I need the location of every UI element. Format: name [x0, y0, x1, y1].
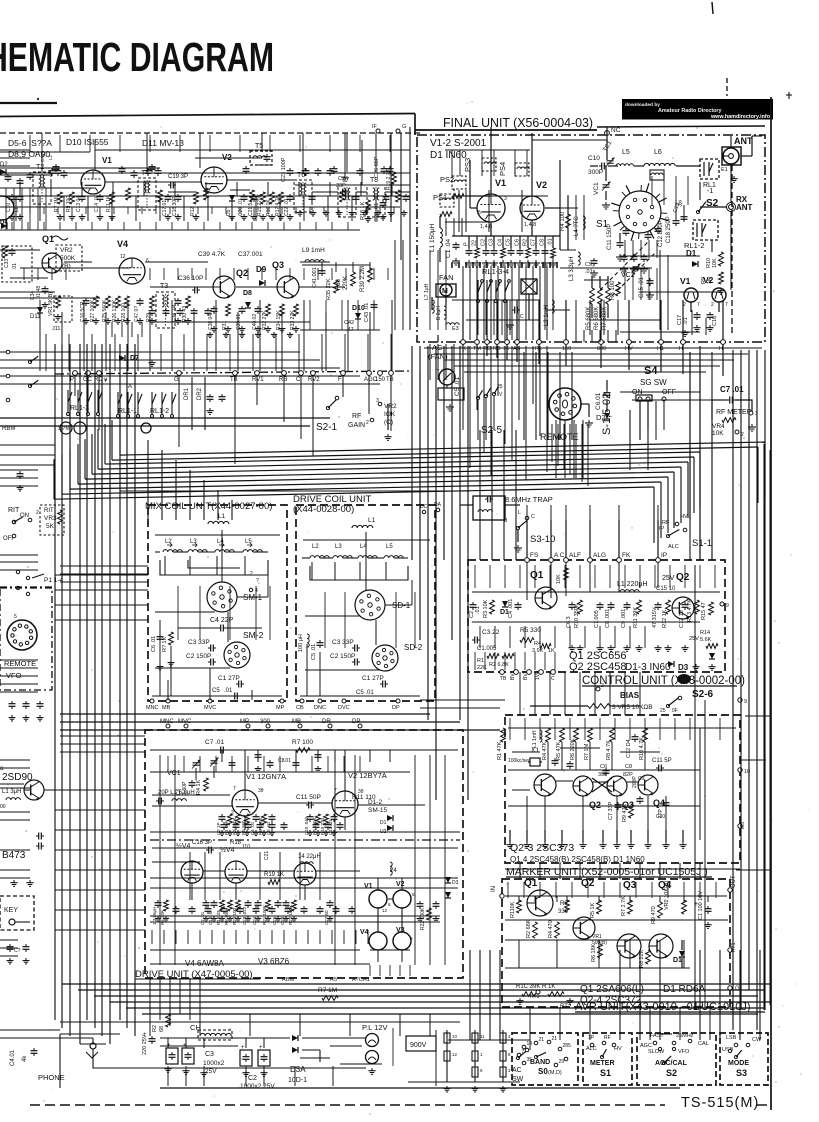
capacitor — [647, 278, 654, 286]
svg-text:ANT: ANT — [734, 136, 753, 146]
resistor — [334, 280, 339, 293]
resistor — [578, 600, 583, 614]
capacitor — [189, 906, 196, 914]
ground — [579, 842, 586, 848]
ground — [566, 998, 573, 1004]
capacitor — [283, 900, 290, 908]
resistor — [487, 654, 499, 659]
svg-text:S4: S4 — [644, 365, 658, 377]
svg-text:C8 .001: C8 .001 — [605, 609, 611, 628]
svg-text:CB: CB — [296, 705, 304, 711]
svg-text:C11 5P: C11 5P — [652, 758, 672, 764]
svg-text:C16 5CP: C16 5CP — [80, 301, 86, 322]
wire — [730, 165, 732, 172]
ground — [207, 332, 213, 338]
mix unit extra verticals — [177, 586, 179, 640]
svg-text:IP: IP — [659, 526, 665, 532]
svg-text:R6 680K: R6 680K — [594, 307, 600, 330]
capacitor — [131, 170, 138, 178]
mix SM1 to SM2 — [227, 612, 229, 642]
inductor — [620, 590, 639, 592]
wire bus vertical — [682, 344, 684, 374]
control inner verticals — [479, 626, 481, 648]
meter M1 — [439, 369, 455, 385]
svg-text:C10: C10 — [588, 155, 600, 162]
inductor — [352, 525, 373, 528]
wire — [544, 236, 546, 248]
capacitor — [42, 286, 49, 294]
capacitor — [617, 240, 624, 248]
ground — [182, 1068, 189, 1074]
transistor Q4 2SC372 — [649, 934, 673, 958]
svg-text:35: 35 — [527, 1057, 533, 1063]
avr mid bus — [505, 939, 650, 941]
bottom outline lines — [160, 1087, 680, 1089]
svg-text:BIAS: BIAS — [620, 691, 640, 700]
inductor — [163, 550, 182, 552]
inductor — [208, 521, 229, 524]
coil PS1 — [440, 194, 454, 207]
wires left transistor — [0, 783, 24, 785]
left vertical bundle — [54, 344, 56, 1020]
rotary switch — [355, 590, 385, 620]
ground — [365, 216, 372, 222]
ground — [662, 842, 669, 848]
final right verticals long — [691, 310, 693, 335]
svg-text:R5 47K: R5 47K — [556, 741, 562, 760]
resistor — [324, 814, 329, 825]
capacitor — [483, 248, 490, 256]
transistor Q1 — [534, 774, 556, 796]
terminal BV1 — [514, 670, 519, 675]
svg-text:DVC: DVC — [338, 705, 350, 711]
diode — [709, 653, 715, 659]
svg-text:Q2-3 2SC373: Q2-3 2SC373 — [510, 842, 574, 854]
tube 1/2 V4 — [225, 861, 247, 883]
capacitor — [185, 1052, 192, 1060]
svg-text:R39 2.2M: R39 2.2M — [360, 266, 366, 292]
resistor — [548, 992, 564, 997]
ground — [384, 434, 391, 440]
diode — [387, 815, 393, 821]
svg-text:S1-1: S1-1 — [692, 538, 712, 549]
control bottom comb — [474, 652, 476, 670]
svg-text:Q3: Q3 — [623, 880, 637, 891]
wire — [631, 232, 634, 241]
control unit board outline — [468, 560, 725, 672]
wire bus vertical — [462, 344, 464, 352]
ground — [251, 214, 258, 220]
wire bus bottom — [62, 983, 770, 985]
t cluster bus y185 — [295, 184, 410, 186]
svg-text:C15 .01: C15 .01 — [639, 276, 645, 298]
ground — [620, 266, 628, 273]
svg-text:R7 1M: R7 1M — [584, 743, 590, 760]
ground — [255, 332, 261, 338]
ground — [602, 202, 610, 209]
wire — [682, 830, 684, 842]
svg-text:D1 IN60: D1 IN60 — [430, 150, 467, 161]
mix coil drops — [164, 556, 166, 575]
svg-text:R5: R5 — [330, 977, 337, 983]
wire — [561, 830, 563, 842]
capacitor — [285, 906, 292, 914]
capacitor — [137, 298, 144, 306]
resistor — [526, 248, 531, 258]
svg-text:R13 4.7K: R13 4.7K — [687, 599, 693, 622]
terminal TM — [475, 340, 480, 345]
capacitor — [353, 194, 360, 202]
svg-text:2: 2 — [250, 571, 253, 577]
D7 row verticals — [111, 322, 113, 337]
wire bus bottom — [94, 995, 758, 997]
svg-text:7: 7 — [233, 786, 236, 792]
capacitor — [508, 248, 515, 256]
ground — [388, 210, 395, 216]
ground — [261, 830, 267, 836]
capacitor — [218, 747, 226, 754]
tube V1 — [81, 170, 105, 194]
capacitor — [241, 194, 248, 202]
svg-text:D2: D2 — [0, 162, 8, 168]
svg-text:R110K: R110K — [510, 901, 516, 918]
bus vertical stubs left — [119, 415, 121, 455]
svg-text:LSB: LSB — [726, 1035, 737, 1041]
svg-text:V1: V1 — [102, 156, 112, 165]
VR1 dashed box — [54, 296, 72, 322]
ground — [57, 214, 64, 220]
capacitor — [168, 182, 176, 189]
capacitor — [79, 194, 86, 202]
svg-text:R5 330: R5 330 — [520, 627, 541, 634]
if strip vertical drops — [15, 196, 17, 221]
capacitor — [512, 307, 520, 314]
resistor — [719, 272, 724, 284]
svg-text:10K: 10K — [556, 574, 562, 584]
if strip horizontal bus 1 — [0, 167, 160, 169]
svg-text:C25: C25 — [272, 916, 277, 925]
resistor — [574, 728, 579, 742]
mid bus y298 — [0, 297, 100, 299]
verticals below final unit left part — [429, 344, 431, 380]
resistor — [270, 192, 275, 204]
resistor — [565, 900, 570, 912]
ground — [271, 332, 277, 338]
svg-text:C2: C2 — [248, 1075, 257, 1082]
svg-text:C3.22: C3.22 — [482, 629, 500, 636]
L9 cluster wires — [302, 264, 370, 266]
capacitor — [36, 833, 44, 840]
drive lower bus y916 — [150, 915, 440, 917]
svg-text:25V: 25V — [205, 1068, 217, 1075]
svg-text:C15 10: C15 10 — [656, 586, 676, 592]
svg-text:29: 29 — [559, 1059, 565, 1065]
svg-text:MNC: MNC — [146, 705, 159, 711]
resistor — [566, 214, 571, 228]
wire — [565, 520, 567, 558]
ground — [613, 842, 620, 848]
ground — [331, 830, 337, 836]
svg-text:OUT: OUT — [731, 875, 737, 888]
svg-text:2: 2 — [711, 302, 714, 308]
terminal RC — [485, 340, 490, 345]
t cluster vertical — [361, 140, 363, 185]
svg-text:CAL: CAL — [698, 1041, 709, 1047]
terminal FS — [525, 558, 530, 563]
inductor — [442, 198, 454, 200]
final top wires — [490, 133, 492, 140]
svg-text:VC1: VC1 — [167, 770, 181, 777]
electrolytic C2 pair — [240, 1050, 252, 1066]
wire — [453, 189, 455, 191]
ground — [541, 842, 548, 848]
ground — [549, 260, 557, 267]
capacitor — [319, 268, 326, 276]
svg-text:IN: IN — [491, 886, 497, 892]
drive unit interior verticals 3 — [167, 756, 169, 772]
wire — [682, 300, 684, 340]
svg-text:L4 ?TC: L4 ?TC — [574, 216, 580, 236]
wire — [535, 236, 537, 248]
wire stubs exiting left edge — [0, 351, 38, 353]
switch — [326, 400, 336, 410]
resistor — [719, 252, 724, 266]
svg-text:.01: .01 — [585, 269, 593, 275]
wire Q3 L9 — [299, 286, 345, 288]
inductor — [172, 799, 186, 801]
terminal RL — [537, 340, 542, 345]
capacitor — [707, 312, 714, 320]
svg-text:C41.001: C41.001 — [312, 267, 318, 288]
capacitor — [552, 758, 559, 766]
control bus 2 — [472, 621, 700, 623]
svg-text:Q3: Q3 — [272, 260, 284, 270]
wire — [618, 520, 620, 558]
ground — [516, 260, 524, 267]
capacitor — [232, 693, 240, 700]
wire — [517, 530, 519, 542]
svg-text:C13 04: C13 04 — [76, 196, 82, 212]
resistor — [245, 814, 250, 825]
ground — [607, 645, 614, 651]
resistor — [606, 288, 611, 304]
capacitor — [349, 906, 356, 914]
ac sw wires — [448, 1039, 530, 1041]
resistor — [590, 288, 595, 304]
resistor — [501, 728, 506, 742]
wire — [599, 276, 601, 288]
svg-text:Q1,4 2SC458(B) 2SC458(B) D: Q1,4 2SC458(B) 2SC458(B) D1 1N60 — [510, 855, 645, 864]
left verticals — [5, 188, 7, 230]
wire — [608, 165, 618, 167]
svg-text:C12 D4: C12 D4 — [626, 739, 632, 758]
capacitor — [517, 248, 524, 256]
electrolytic C3 pair — [166, 1048, 178, 1064]
wire — [545, 207, 560, 209]
wire — [639, 401, 641, 440]
ground — [514, 545, 522, 552]
resistor — [722, 418, 736, 423]
capacitor — [287, 168, 294, 176]
svg-text:½V4: ½V4 — [176, 842, 191, 850]
ground — [627, 842, 634, 848]
svg-text:P: P — [70, 377, 74, 383]
ground — [9, 214, 16, 220]
drive unit bottom terminals — [300, 699, 304, 703]
final wires y222 — [445, 221, 490, 223]
svg-text:BV1: BV1 — [510, 670, 516, 680]
switch — [734, 1050, 741, 1059]
capacitor — [243, 1054, 250, 1062]
terminal 800 — [599, 340, 604, 345]
capacitor — [208, 659, 216, 666]
final S1 radiating extra — [661, 212, 667, 214]
svg-text:L7 1μH: L7 1μH — [424, 283, 430, 300]
terminal 150 — [564, 340, 569, 345]
svg-text:R9 470: R9 470 — [651, 906, 657, 924]
ground — [203, 916, 209, 922]
ground — [185, 318, 192, 324]
wire — [600, 300, 602, 340]
drive coil drops — [311, 562, 313, 580]
capacitor — [53, 164, 60, 172]
resistor — [533, 922, 538, 938]
resistor — [220, 900, 225, 911]
ground — [235, 830, 241, 836]
wire — [741, 155, 752, 157]
transformer T6 — [294, 180, 312, 212]
svg-text:10: 10 — [452, 1034, 458, 1039]
svg-text:MODE: MODE — [728, 1060, 749, 1067]
inductor — [583, 216, 585, 229]
ground — [616, 254, 624, 261]
wires S2-5 region verticals — [523, 352, 525, 440]
switch — [484, 388, 490, 397]
capacitor — [155, 900, 162, 908]
wire — [657, 520, 659, 558]
wire — [567, 196, 569, 214]
relay contact 3 — [495, 280, 497, 300]
svg-text:12: 12 — [452, 1052, 458, 1057]
transistor Q2 2SC458 — [672, 597, 694, 619]
capacitor — [9, 701, 16, 709]
resistor — [646, 950, 651, 964]
svg-text:C43 .01: C43 .01 — [364, 303, 370, 322]
resistor — [522, 992, 538, 997]
if strip bus y152 — [0, 151, 90, 153]
wire — [509, 830, 511, 842]
svg-text:285: 285 — [563, 1043, 572, 1049]
ground — [315, 830, 321, 836]
svg-text:L5: L5 — [622, 149, 630, 156]
drive cluster bus y832 — [150, 831, 460, 833]
remote vfo dashed boundary — [0, 588, 52, 690]
wire under bus — [120, 490, 470, 492]
svg-text:1K: 1K — [548, 648, 555, 654]
if strip xfmr stems — [41, 133, 43, 172]
svg-text:TB: TB — [230, 377, 238, 383]
wire — [592, 778, 612, 792]
ground — [93, 318, 100, 324]
vertical stubs from bus196 — [19, 182, 21, 196]
left wires y440-470 — [0, 444, 55, 446]
resistor — [643, 728, 648, 742]
resistor — [316, 814, 321, 825]
svg-text:F: F — [338, 377, 342, 383]
relay RL1-1 — [700, 159, 719, 179]
right area verticals RL — [699, 182, 701, 200]
switch — [28, 380, 38, 387]
capacitor — [705, 906, 712, 914]
capacitor — [149, 1036, 156, 1044]
capacitor — [155, 168, 162, 176]
marker unit board outline — [505, 715, 740, 863]
capacitor — [302, 168, 309, 176]
transistor 2SD90 — [24, 780, 44, 801]
coil PS3 — [482, 158, 496, 171]
drive L1 to SD1 — [365, 532, 367, 590]
svg-text:C12 10: C12 10 — [679, 610, 685, 628]
tube V4 — [119, 258, 145, 284]
left mid box — [2, 246, 32, 282]
svg-text:8.6MHz TRAP: 8.6MHz TRAP — [505, 495, 553, 504]
svg-text:P.L 12V: P.L 12V — [362, 1023, 387, 1032]
wire — [602, 830, 604, 842]
svg-text:FS: FS — [530, 552, 539, 559]
capacitor — [233, 822, 240, 830]
terminal OUT — [728, 888, 732, 892]
terminal 1V0 — [539, 670, 544, 675]
svg-text:R4 470: R4 470 — [548, 920, 554, 938]
ground — [635, 645, 642, 651]
capacitor — [7, 944, 14, 952]
svg-text:MARKER UNIT (X52-0005-01or UC1: MARKER UNIT (X52-0005-01or UC1505J ) — [506, 866, 708, 878]
ground — [704, 922, 711, 928]
svg-text:HEMATIC DIAGRAM: HEMATIC DIAGRAM — [0, 34, 274, 80]
svg-text:V2: V2 — [536, 180, 547, 190]
svg-text:L6: L6 — [654, 149, 662, 156]
wire Q1 V4 row — [20, 267, 130, 269]
ground — [644, 842, 651, 848]
gap wires y868-878 — [505, 868, 740, 870]
left lower stubs — [0, 759, 30, 761]
trimmer capacitor — [602, 182, 611, 191]
terminal H — [681, 340, 686, 345]
svg-text:DNC: DNC — [314, 705, 326, 711]
svg-text:C21 5: C21 5 — [248, 202, 254, 216]
svg-text:C1 27P: C1 27P — [218, 675, 240, 682]
if comb y135-195 — [29, 135, 31, 152]
ground — [9, 715, 16, 721]
ground — [375, 210, 382, 216]
svg-text:4k: 4k — [22, 1055, 28, 1062]
inductor — [651, 173, 663, 175]
svg-text:C27 50: C27 50 — [324, 910, 329, 925]
terminal C — [551, 670, 556, 675]
resistor — [94, 296, 99, 308]
wire — [466, 195, 490, 197]
svg-text:R8 4.7K: R8 4.7K — [606, 740, 612, 760]
resistor — [261, 192, 266, 204]
final grid bus — [452, 195, 548, 197]
ground — [693, 325, 700, 331]
ground — [362, 210, 369, 216]
avr verticals — [518, 940, 520, 968]
svg-text:R33 22K: R33 22K — [290, 310, 296, 330]
svg-text:D2: D2 — [596, 413, 606, 422]
svg-text:UC1010J): UC1010J) — [701, 1001, 751, 1013]
wire — [516, 300, 518, 340]
